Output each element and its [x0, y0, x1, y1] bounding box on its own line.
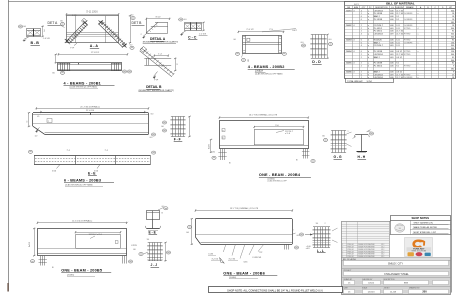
beam elevation 200B2 [233, 29, 297, 76]
svg-text:21'-7 3/4: 21'-7 3/4 [396, 10, 403, 12]
svg-text:11'-6 1/4 (OVERALL): 11'-6 1/4 (OVERALL) [72, 219, 93, 222]
svg-text:2: 2 [361, 63, 362, 65]
svg-text:1/4 NS/FS: 1/4 NS/FS [404, 19, 413, 21]
svg-text:STEEL SOLUTIONS: STEEL SOLUTIONS [411, 250, 426, 252]
svg-text:3'-11: 3'-11 [396, 28, 400, 30]
label DET A [48, 21, 65, 27]
svg-text:E - E: E - E [88, 172, 96, 176]
beam elevation 200B3 [27, 105, 156, 139]
section B-B [18, 25, 50, 46]
svg-text:TURN-KEY: TURN-KEY [413, 248, 425, 250]
svg-text:W12X26: W12X26 [374, 39, 383, 41]
svg-text:ONE - BEAM - 200B4: ONE - BEAM - 200B4 [259, 173, 301, 177]
svg-text:A36: A36 [390, 12, 393, 15]
beam plan view A-A [60, 11, 135, 49]
svg-text:DETAIL A: DETAIL A [150, 37, 166, 41]
section L-L [297, 223, 338, 253]
svg-text:A36: A36 [390, 50, 393, 53]
svg-text:DET B: DET B [132, 21, 143, 25]
svg-text:A - A: A - A [90, 44, 99, 48]
svg-text:1/4 NS/FS: 1/4 NS/FS [404, 77, 413, 79]
svg-text:5x: 5x [27, 121, 29, 123]
svg-text:L3X3X1/4: L3X3X1/4 [374, 10, 384, 12]
svg-text:21'-7 3/4: 21'-7 3/4 [396, 77, 403, 79]
svg-text:2: 2 [325, 223, 326, 225]
svg-text:A36: A36 [390, 15, 393, 18]
svg-text:1: 1 [361, 13, 362, 15]
svg-text:FITTED: FITTED [404, 51, 411, 53]
svg-text:6: 6 [361, 51, 362, 53]
svg-text:TOTAL WEIGHT: TOTAL WEIGHT [347, 80, 363, 83]
svg-text:(1) AS SHOWN (1) OPP HAND: (1) AS SHOWN (1) OPP HAND [255, 72, 283, 75]
svg-text:x 9'-6: x 9'-6 [285, 133, 291, 135]
beam elevation 200B5 [29, 219, 133, 276]
svg-text:4: 4 [353, 63, 354, 65]
svg-text:D - D: D - D [312, 60, 321, 64]
section K-K tee [145, 206, 168, 235]
svg-text:2: 2 [361, 31, 362, 33]
svg-text:200B4: 200B4 [346, 51, 353, 53]
svg-text:b: b [368, 66, 369, 68]
svg-text:344: 344 [451, 48, 454, 50]
svg-text:L3X3X1/4: L3X3X1/4 [374, 34, 384, 36]
beam elevation 200B6 [186, 207, 299, 279]
svg-text:A36: A36 [390, 70, 393, 73]
svg-text:6: 6 [361, 74, 362, 76]
detail A [141, 17, 179, 44]
svg-text:6: 6 [361, 42, 362, 44]
svg-text:a: a [418, 42, 419, 44]
svg-text:200B1: 200B1 [346, 10, 353, 12]
svg-text:2'-5 1/2: 2'-5 1/2 [246, 29, 254, 31]
date row [342, 286, 451, 288]
svg-text:81: 81 [452, 63, 454, 65]
svg-text:81: 81 [452, 31, 454, 33]
svg-text:A36: A36 [390, 65, 393, 68]
svg-text:16'-7 7/8 (OVERALL) 16'-0 7/8: 16'-7 7/8 (OVERALL) 16'-0 7/8 [249, 114, 278, 117]
svg-text:TYP: TYP [259, 252, 264, 254]
svg-text:344: 344 [451, 28, 454, 30]
svg-text:C - C: C - C [188, 35, 197, 39]
svg-text:4: 4 [353, 51, 354, 53]
beam elevation 200B1 [52, 52, 132, 89]
svg-text:27: 27 [452, 74, 454, 76]
shop notes box [391, 216, 451, 235]
svg-text:344: 344 [451, 45, 454, 47]
svg-text:4: 4 [353, 25, 354, 27]
svg-text:24-108: 24-108 [390, 291, 396, 293]
svg-text:(1) AS SHOWN (1) OPP: (1) AS SHOWN (1) OPP [268, 179, 288, 182]
beam elevation 200B4 [209, 114, 316, 183]
svg-text:TYP: TYP [154, 79, 159, 81]
svg-text:21'-0 3/4: 21'-0 3/4 [86, 110, 95, 112]
svg-text:1/4 NS/FS: 1/4 NS/FS [404, 42, 413, 44]
svg-text:b: b [368, 74, 369, 76]
svg-text:0'-8 1/2: 0'-8 1/2 [396, 51, 402, 53]
svg-text:200B6: 200B6 [346, 71, 353, 73]
section D-D [301, 34, 333, 65]
svg-text:344: 344 [451, 36, 454, 38]
svg-text:SHUT GA SHIM U.N.: SHUT GA SHIM U.N. [414, 221, 434, 224]
svg-text:PL 6X1/2: PL 6X1/2 [374, 28, 383, 30]
svg-text:4: 4 [353, 71, 354, 73]
svg-text:344: 344 [451, 10, 454, 12]
svg-text:0'-8 1/2: 0'-8 1/2 [396, 71, 402, 73]
svg-text:18: 18 [452, 13, 454, 15]
svg-text:2: 2 [361, 28, 362, 30]
label E-E [88, 172, 97, 176]
title block [342, 222, 451, 295]
svg-text:4 - BEAMS - 200B2: 4 - BEAMS - 200B2 [248, 65, 285, 69]
svg-text:FITTED: FITTED [404, 28, 411, 30]
svg-text:PL 5X3/8: PL 5X3/8 [374, 13, 383, 15]
svg-text:2: 2 [361, 71, 362, 73]
svg-text:A36: A36 [390, 24, 393, 27]
svg-text:ONE - BEAM - 200B5: ONE - BEAM - 200B5 [61, 269, 102, 273]
detail B [139, 47, 179, 92]
svg-text:A99: A99 [390, 33, 393, 36]
svg-text:a: a [418, 63, 419, 65]
svg-text:18: 18 [452, 16, 454, 18]
svg-text:DESCRIPTION: DESCRIPTION [375, 7, 388, 9]
svg-text:SHOP NOTES: SHOP NOTES [412, 216, 430, 220]
svg-text:200B2: 200B2 [346, 25, 353, 27]
svg-text:PL 5X3/8: PL 5X3/8 [374, 51, 383, 53]
svg-text:3,764: 3,764 [367, 81, 373, 83]
svg-text:L - L: L - L [317, 249, 324, 253]
svg-text:FITTED: FITTED [404, 34, 411, 36]
drawn row [342, 277, 451, 279]
svg-text:BAR 2: BAR 2 [374, 41, 381, 44]
svg-text:DETAIL B: DETAIL B [146, 85, 162, 89]
svg-text:A99: A99 [390, 56, 393, 59]
revision table [342, 222, 390, 258]
svg-text:9'-2: 9'-2 [396, 66, 399, 68]
svg-text:344: 344 [451, 34, 454, 36]
svg-text:A36: A36 [390, 62, 393, 65]
svg-text:21'-7 3/4: 21'-7 3/4 [396, 34, 403, 36]
svg-text:A99: A99 [390, 44, 393, 47]
svg-text:b: b [368, 57, 369, 59]
svg-text:3'-11: 3'-11 [396, 42, 400, 44]
svg-text:SHT 1: SHT 1 [354, 4, 359, 6]
svg-text:9'-2: 9'-2 [396, 19, 399, 21]
svg-text:17'-8 1/2: 17'-8 1/2 [91, 52, 100, 54]
svg-text:2: 2 [361, 25, 362, 27]
svg-text:3'-11: 3'-11 [396, 39, 400, 41]
section C-C [179, 18, 208, 40]
svg-text:A36: A36 [390, 30, 393, 33]
svg-text:(2) AS SHOWN (2) OPP HAND: (2) AS SHOWN (2) OPP HAND [70, 85, 98, 88]
svg-text:18: 18 [452, 25, 454, 27]
svg-text:b: b [368, 28, 369, 30]
svg-text:3'-2 1/4: 3'-2 1/4 [212, 259, 219, 261]
svg-text:A36: A36 [390, 9, 393, 12]
svg-text:PL 3X1/4: PL 3X1/4 [374, 66, 383, 68]
svg-text:3'-0 3/4: 3'-0 3/4 [229, 259, 236, 261]
section G-G [322, 131, 352, 160]
svg-text:E - E: E - E [149, 231, 157, 235]
svg-text:9: 9 [453, 71, 454, 73]
svg-text:G - G: G - G [334, 155, 342, 159]
svg-text:4: 4 [353, 39, 354, 41]
sheet frame border [8, 0, 10, 292]
svg-text:FITTED: FITTED [404, 39, 411, 41]
svg-text:BMS: BMS [404, 283, 409, 285]
svg-text:KHALANGERY STEEL: KHALANGERY STEEL [384, 273, 409, 276]
svg-text:a: a [418, 74, 419, 76]
svg-text:18: 18 [452, 19, 454, 21]
svg-text:BAR 2: BAR 2 [374, 15, 381, 18]
svg-text:9: 9 [453, 66, 454, 68]
svg-text:PL 6X1/2: PL 6X1/2 [374, 31, 383, 33]
svg-text:A36: A36 [390, 18, 393, 21]
svg-text:p: p [368, 45, 369, 47]
svg-text:200B2A: 200B2A [255, 70, 264, 73]
svg-text:4: 4 [361, 34, 362, 36]
svg-text:1'-0 5/8: 1'-0 5/8 [199, 33, 207, 35]
svg-text:344: 344 [451, 54, 454, 56]
svg-text:BILL OF MATERIAL: BILL OF MATERIAL [386, 2, 415, 6]
svg-text:a: a [418, 10, 419, 12]
svg-text:A99: A99 [390, 53, 393, 56]
svg-text:SMILEY, CITY: SMILEY, CITY [388, 262, 404, 265]
svg-text:9'-2: 9'-2 [396, 63, 399, 65]
svg-text:21'-7 3/4: 21'-7 3/4 [396, 74, 403, 76]
svg-text:p: p [368, 13, 369, 15]
svg-text:(200B6): (200B6) [229, 277, 236, 279]
svg-text:p: p [368, 71, 369, 73]
svg-text:J - J: J - J [151, 263, 158, 267]
project row [342, 268, 451, 270]
svg-text:b: b [368, 51, 369, 53]
svg-text:PL 5X3/8: PL 5X3/8 [374, 19, 383, 21]
svg-text:(3) AS SHOWN (3) OPP HAND: (3) AS SHOWN (3) OPP HAND [65, 184, 93, 187]
svg-text:x3/4: x3/4 [306, 248, 310, 250]
bill of material table [345, 2, 456, 83]
company logo [405, 238, 433, 257]
svg-text:b: b [368, 39, 369, 41]
svg-text:18: 18 [452, 77, 454, 79]
svg-text:200B3: 200B3 [346, 39, 353, 41]
svg-text:12/2024: 12/2024 [368, 291, 375, 293]
svg-text:1/4 NS/FS: 1/4 NS/FS [404, 25, 413, 27]
svg-text:200: 200 [422, 290, 427, 294]
svg-text:DET A: DET A [48, 21, 58, 25]
svg-text:6: 6 [361, 39, 362, 41]
svg-text:a: a [418, 51, 419, 53]
svg-text:A99: A99 [390, 73, 393, 76]
svg-text:4: 4 [418, 28, 419, 30]
svg-text:9'-2: 9'-2 [396, 16, 399, 18]
svg-text:a: a [418, 34, 419, 36]
svg-text:21'-7 3/4: 21'-7 3/4 [396, 13, 403, 15]
svg-text:3'-11: 3'-11 [396, 45, 400, 47]
svg-text:4 - BEAMS - 200B1: 4 - BEAMS - 200B1 [64, 81, 102, 85]
svg-text:136: 136 [451, 42, 454, 44]
svg-text:B - B: B - B [31, 41, 40, 45]
svg-text:581: 581 [451, 69, 454, 71]
svg-text:L3X3X1/4: L3X3X1/4 [374, 74, 384, 76]
svg-text:1/4: 1/4 [147, 239, 150, 241]
svg-text:p: p [368, 34, 369, 36]
section J-J [131, 239, 171, 268]
svg-text:136: 136 [451, 51, 454, 53]
svg-text:21'-7 3/4: 21'-7 3/4 [396, 54, 403, 56]
svg-text:F - F: F - F [174, 138, 181, 142]
svg-text:05: 05 [348, 291, 350, 293]
svg-text:13'-7 7/8 (OVERALL) 13'-0 7/8: 13'-7 7/8 (OVERALL) 13'-0 7/8 [230, 207, 259, 210]
svg-text:H - H: H - H [358, 155, 366, 159]
svg-text:FITTED: FITTED [404, 54, 411, 56]
svg-text:1/2024: 1/2024 [368, 283, 374, 285]
section E-E plate view [28, 150, 155, 172]
svg-text:FITTED: FITTED [404, 66, 411, 68]
svg-text:1'-0 5/8: 1'-0 5/8 [43, 38, 51, 40]
svg-text:PL 5X3/8: PL 5X3/8 [374, 63, 383, 65]
section F-F [161, 116, 191, 142]
svg-text:a: a [418, 77, 419, 79]
svg-text:1/4 NS/FS: 1/4 NS/FS [404, 13, 413, 15]
svg-text:6 - BEAMS - 200B3: 6 - BEAMS - 200B3 [64, 178, 101, 182]
svg-text:a: a [418, 13, 419, 15]
svg-text:C12X20.7: C12X20.7 [374, 45, 384, 47]
svg-text:ONE - BEAM - 200B6: ONE - BEAM - 200B6 [223, 272, 265, 276]
svg-text:2: 2 [361, 54, 362, 56]
svg-text:21'-7 3/4: 21'-7 3/4 [396, 31, 403, 33]
svg-text:200B5: 200B5 [346, 63, 353, 65]
svg-text:A99: A99 [390, 27, 393, 30]
svg-text:DET: DET [293, 30, 298, 32]
svg-text:L3X3X1/4: L3X3X1/4 [374, 54, 384, 56]
svg-text:b: b [368, 54, 369, 56]
svg-text:3'-11: 3'-11 [396, 25, 400, 27]
svg-text:L5X3X1/4: L5X3X1/4 [253, 257, 263, 259]
svg-text:BAR 2: BAR 2 [374, 56, 381, 59]
svg-text:LENGTH: LENGTH [396, 7, 404, 9]
svg-text:6: 6 [361, 19, 362, 21]
svg-text:TYP: TYP [70, 48, 75, 50]
svg-text:4: 4 [353, 10, 354, 12]
svg-text:BAR 2: BAR 2 [374, 70, 381, 73]
svg-text:5'-11 13/16: 5'-11 13/16 [86, 11, 98, 13]
section H-H [353, 130, 374, 160]
svg-text:0'-8 1/2: 0'-8 1/2 [396, 57, 402, 59]
svg-text:4: 4 [361, 10, 362, 12]
svg-text:81: 81 [452, 39, 454, 41]
svg-text:1/4: 1/4 [316, 223, 319, 225]
label DET B [132, 21, 145, 25]
svg-text:2: 2 [361, 66, 362, 68]
svg-text:05: 05 [348, 283, 350, 285]
svg-text:12C20.7 x 8'-0: 12C20.7 x 8'-0 [89, 234, 103, 236]
svg-text:GTRW: GTRW [131, 245, 137, 247]
svg-text:21'-7 3/4 (OVERALL): 21'-7 3/4 (OVERALL) [80, 105, 100, 108]
svg-text:81: 81 [452, 57, 454, 59]
bottom shop note [209, 287, 343, 293]
svg-text:8 1/2: 8 1/2 [156, 17, 162, 19]
svg-text:A36: A36 [390, 41, 393, 44]
label 6 - BEAMS - 200B3 [64, 178, 114, 186]
svg-text:8x5/8: 8x5/8 [209, 144, 211, 149]
svg-text:6: 6 [361, 16, 362, 18]
svg-text:SHOP NOTE: ALL CONNECTIONS SHA: SHOP NOTE: ALL CONNECTIONS SHALL BE 1/4"… [227, 288, 323, 292]
svg-text:4: 4 [361, 45, 362, 47]
svg-text:C12X20.7: C12X20.7 [374, 25, 384, 27]
svg-text:2: 2 [361, 57, 362, 59]
svg-text:(ROUND NOT SHOWN FOR CLARITY): (ROUND NOT SHOWN FOR CLARITY) [143, 41, 179, 44]
svg-text:A36: A36 [390, 38, 393, 41]
svg-text:FITTED: FITTED [404, 74, 411, 76]
svg-text:(200B5): (200B5) [67, 274, 74, 276]
